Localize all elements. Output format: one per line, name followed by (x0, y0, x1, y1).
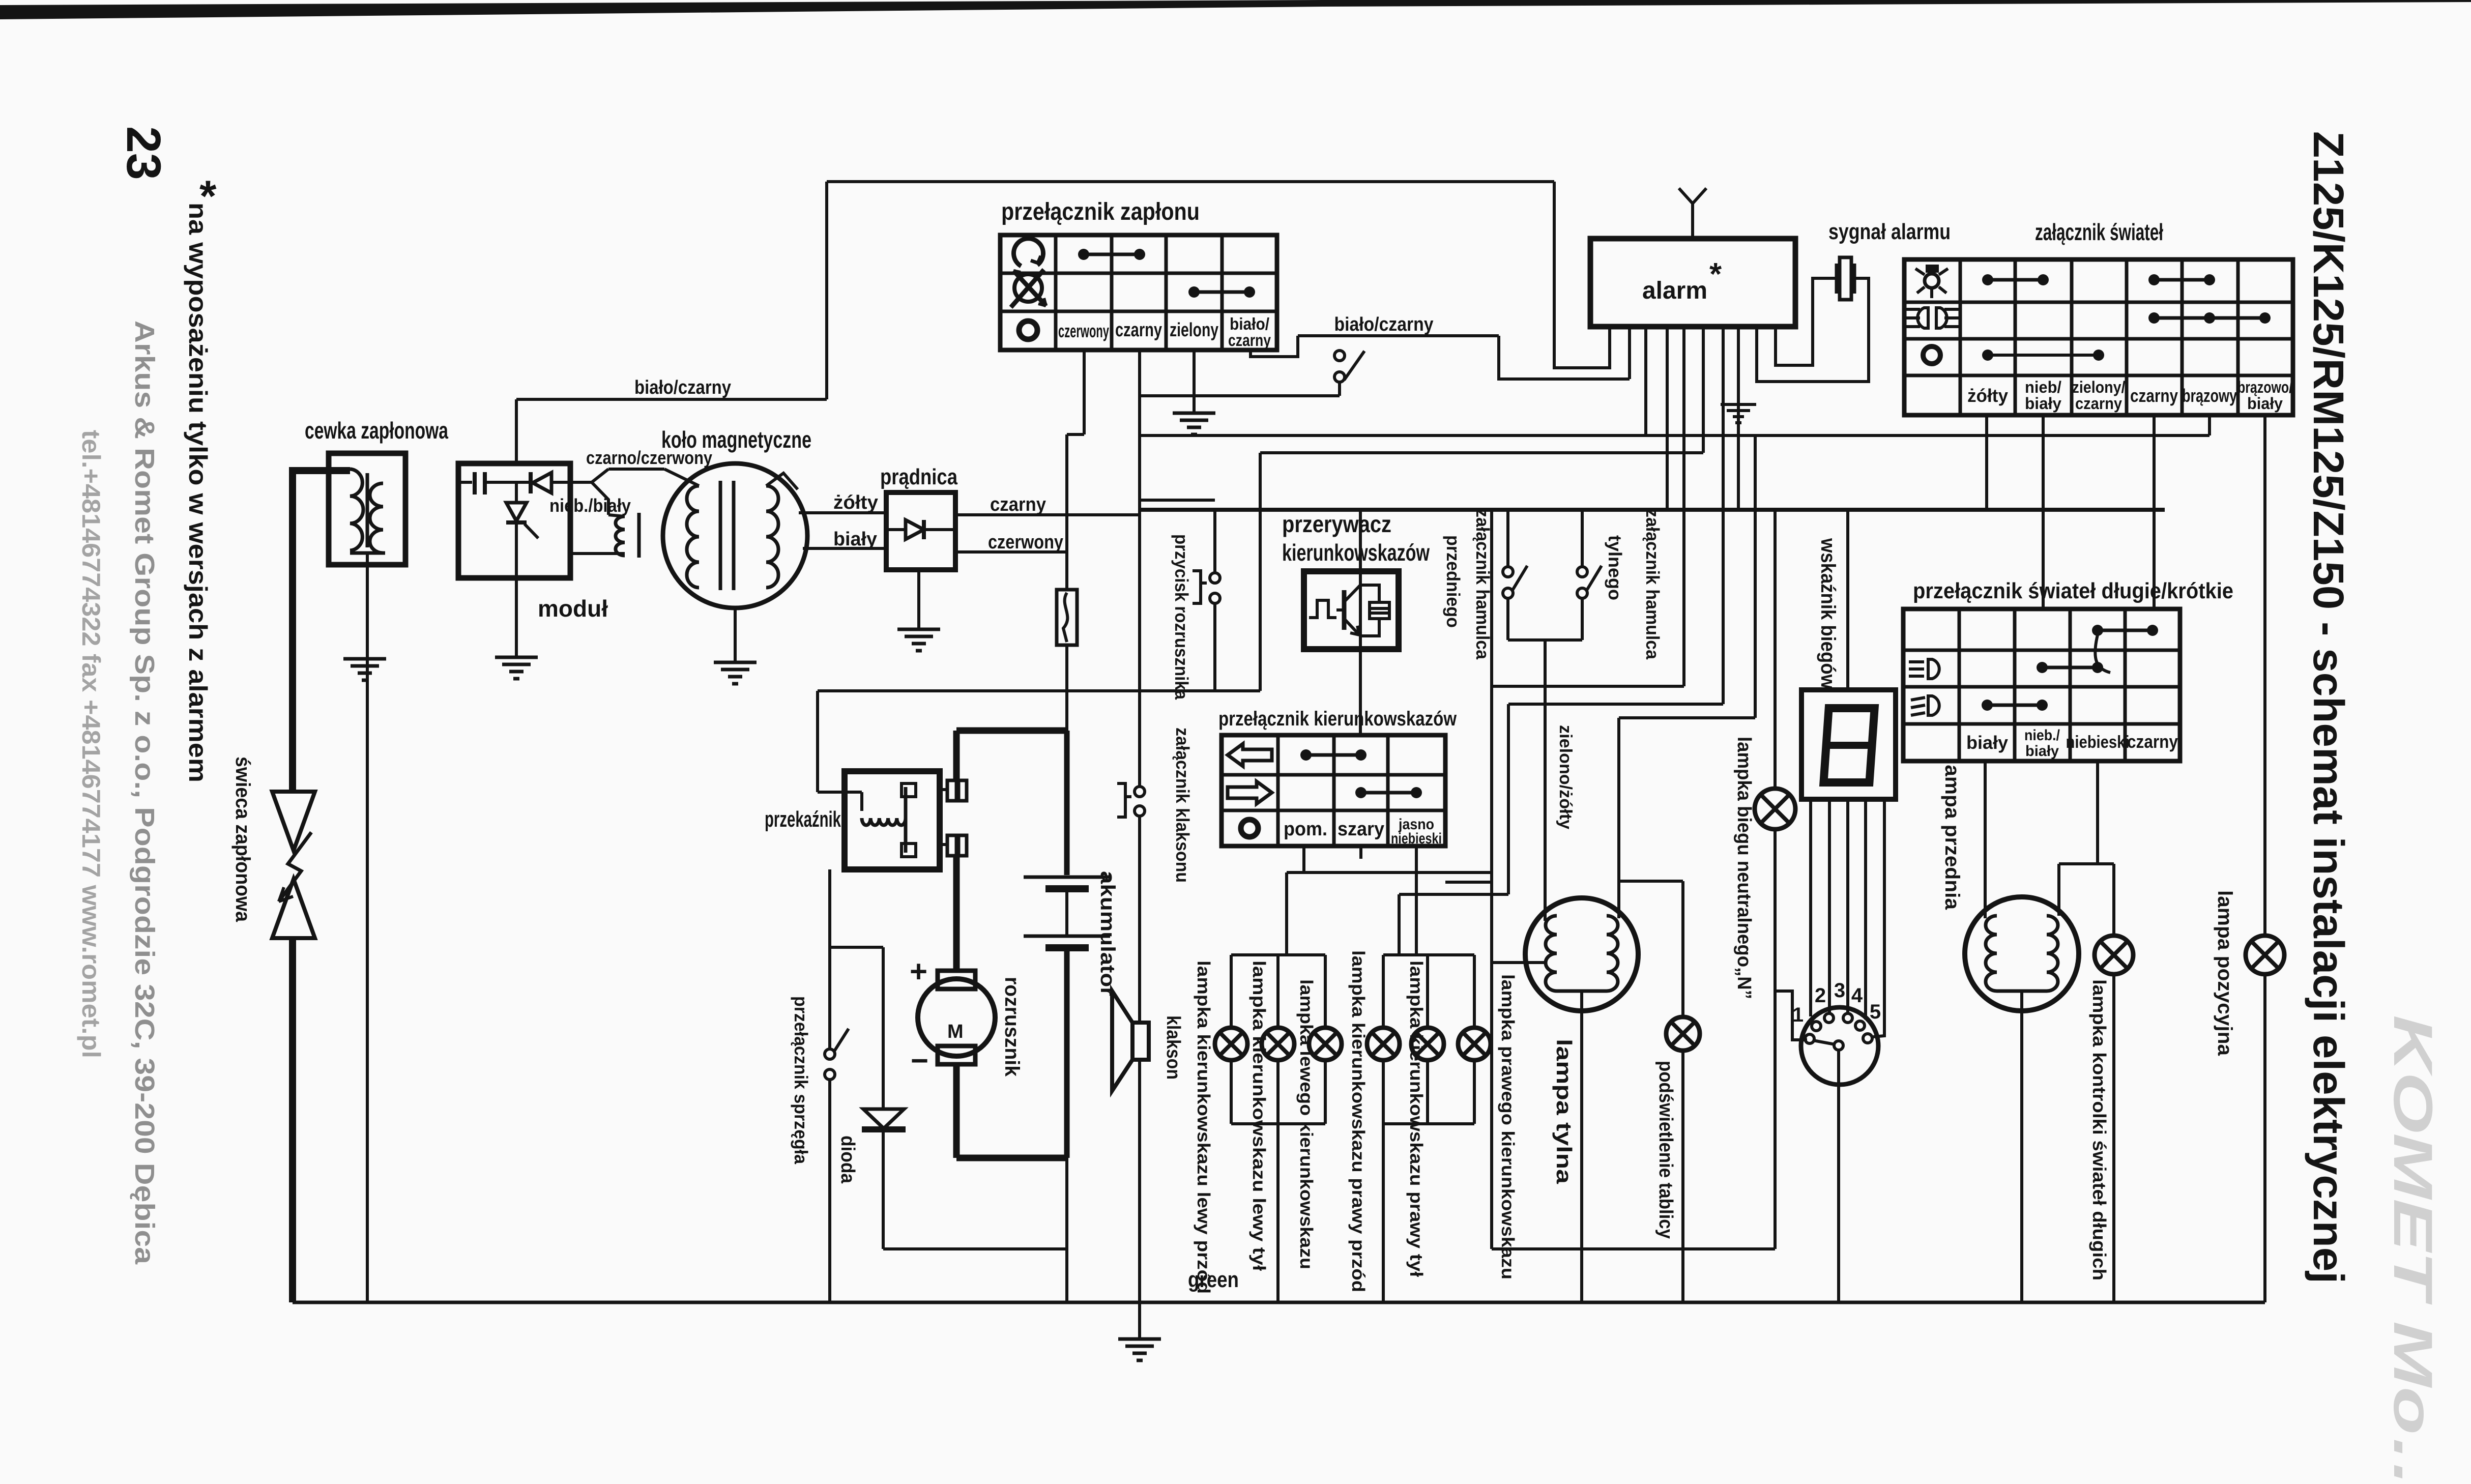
wire up corner to top run (825, 182, 828, 399)
gear connector circle (1801, 1007, 1878, 1085)
wire display feed (1846, 510, 1849, 690)
beam contacts row2 (2037, 662, 2048, 673)
wire diode bottom (882, 1130, 885, 1249)
svg-text:1: 1 (1792, 1004, 1804, 1026)
symbol high beam (1903, 661, 1917, 662)
tail lamp left winding (1546, 916, 1557, 991)
wire button top (1213, 510, 1216, 573)
svg-text:*: * (1709, 257, 1722, 292)
fuse bezpiecznik (1057, 590, 1077, 645)
svg-text:lampka kierunkowskazu prawy pr: lampka kierunkowskazu prawy przód (1348, 950, 1368, 1292)
light switch table grid (1904, 259, 2293, 415)
svg-text:żółty: żółty (1967, 385, 2008, 406)
magneto core (719, 481, 722, 590)
wire zolty column to bus (1985, 415, 1988, 510)
wire horn button down (1138, 816, 1141, 1025)
svg-text:szary: szary (1338, 819, 1384, 840)
svg-text:alarm: alarm (1642, 277, 1707, 304)
wire split to control lamp (2059, 862, 2114, 865)
svg-text:zielono/żółty: zielono/żółty (1556, 725, 1575, 829)
wire horizontal 1758 group2 (1399, 893, 1508, 896)
wire bialy magneto to rectifier (803, 547, 886, 550)
wire alarm7 to 2965 (1508, 703, 1723, 706)
ground bus bottom (293, 1301, 2265, 1304)
ground under module (495, 656, 538, 659)
headlamp center lead (2020, 991, 2023, 1302)
svg-text:2: 2 (1815, 984, 1826, 1007)
svg-text:rozrusznik: rozrusznik (1001, 977, 1023, 1077)
svg-text:biało/czarny: biało/czarny (634, 377, 731, 398)
ignition coil secondary winding (370, 483, 383, 553)
thick wire relay to motor (953, 856, 960, 973)
symbol headlight both (1917, 308, 1928, 328)
wire tail lamp right winding feed (1617, 718, 1620, 918)
wire horizontal 1715 (1287, 871, 1492, 874)
svg-text:Z125/K125/RM125/Z150 - schemat: Z125/K125/RM125/Z150 - schemat instalacj… (2305, 131, 2352, 1284)
svg-text:czarny: czarny (990, 494, 1046, 515)
ignition coil box (329, 453, 405, 565)
svg-text:biały: biały (1966, 732, 2008, 753)
wire alarm pin1 (1554, 182, 1610, 368)
headlamp right winding (2047, 916, 2058, 991)
wire alarm5 to 2932 (1492, 685, 1684, 688)
svg-text:lampa przednia: lampa przednia (1941, 759, 1963, 910)
symbol circle off (1241, 820, 1258, 837)
stub szary column (1359, 846, 1362, 859)
relay armature (904, 787, 908, 853)
wire group1 feed (1285, 872, 1288, 955)
tail lamp center lead (1580, 991, 1583, 1302)
wire diode branch horizontal (830, 946, 883, 949)
wire bialo/czarny down right of switch (1499, 336, 1630, 379)
starter button przycisk rozrusznika (1210, 573, 1220, 583)
svg-text:przycisk rozrusznika: przycisk rozrusznika (1171, 534, 1192, 700)
wire horizontal 890 to alarm (1260, 451, 1703, 454)
svg-text:lampka kierunkowskazu lewy tył: lampka kierunkowskazu lewy tył (1249, 961, 1269, 1271)
rectifier diode (886, 528, 906, 531)
wire brake switch1 top (1506, 510, 1509, 567)
lamp biegu neutralnego (1755, 789, 1795, 829)
beam switch table grid (1903, 609, 2180, 761)
connector pins (1805, 1034, 1814, 1043)
magneto circle (663, 463, 807, 608)
svg-text:moduł: moduł (538, 595, 608, 622)
lamp rail group1 top (1231, 953, 1325, 956)
alarm buzzer loop right (1757, 278, 1869, 382)
svg-text:czarny: czarny (2075, 394, 2122, 413)
svg-text:tylnego: tylnego (1605, 535, 1625, 600)
svg-text:dioda: dioda (837, 1136, 858, 1184)
bus 856 from czarny column to zalacznik swiatel (1140, 434, 2210, 437)
svg-text:przerywacz: przerywacz (1282, 511, 1391, 537)
display pins down (1809, 799, 1812, 1016)
svg-text:świeca zapłonowa: świeca zapłonowa (231, 756, 254, 922)
svg-text:koło magnetyczne: koło magnetyczne (661, 426, 811, 453)
magneto left winding (687, 486, 699, 588)
svg-text:zielony: zielony (1170, 319, 1218, 341)
wire battery chain to ground bus (1065, 1158, 1068, 1302)
tail lamp right winding (1607, 916, 1618, 991)
ground stub zielony column (1193, 350, 1196, 412)
svg-text:na wyposażeniu tylko w wersjac: na wyposażeniu tylko w wersjach z alarme… (184, 202, 212, 782)
wire alarm pin4 (1666, 327, 1669, 510)
svg-text:−: − (911, 1043, 928, 1078)
wire brake switch2 top (1581, 510, 1584, 567)
brake switch zalacznik hamulca przedniego (1503, 567, 1513, 577)
magneto right winding (766, 486, 778, 588)
flasher pulse symbol (1309, 600, 1336, 618)
horn klakson (1112, 991, 1132, 1091)
svg-text:czarny: czarny (1115, 319, 1162, 341)
gear display box (1801, 690, 1896, 799)
svg-text:5: 5 (1870, 1001, 1881, 1023)
svg-text:biały: biały (833, 529, 877, 550)
svg-text:prądnica: prądnica (880, 464, 957, 489)
module capacitor (458, 481, 472, 484)
wire czerwony column jog (1083, 350, 1086, 434)
thick wire battery top (1064, 731, 1070, 875)
buzzer left lead (1776, 278, 1837, 365)
flasher cap connections (1360, 585, 1379, 602)
module diode (529, 472, 533, 493)
ignition symbol circle (1019, 321, 1037, 339)
wire czarny rectifier to bus (955, 513, 1140, 516)
tail lamp bottom bar (1557, 990, 1607, 993)
svg-text:przełącznik kierunkowskazów: przełącznik kierunkowskazów (1218, 708, 1457, 730)
wire nieb/bialy column down (2042, 415, 2045, 609)
thick wire relay to top bus (953, 731, 960, 780)
wire neutral lamp down (1774, 829, 1777, 1249)
lamp group1 bottoms (1230, 1060, 1233, 1124)
alarm box (1590, 239, 1795, 327)
wire connector center down (1837, 1050, 1840, 1302)
svg-text:KOMET Mo…: KOMET Mo… (2382, 1015, 2444, 1484)
svg-text:lampka lewego kierunkowskazu: lampka lewego kierunkowskazu (1296, 979, 1316, 1269)
ignition contacts row2 (1188, 286, 1200, 298)
lamp group2 wires (1382, 955, 1385, 1028)
symbol lamp bulb (1926, 265, 1939, 273)
wire alarm pin6 (1702, 327, 1705, 453)
wire clutch switch vertical (828, 869, 831, 1049)
lamp kierunkowskaz prawy tyl (1411, 1028, 1444, 1060)
alarm antenna (1691, 203, 1694, 239)
ground under magneto (714, 661, 757, 664)
wire clutch switch bottom (828, 1080, 831, 1302)
wire bialo/czarny column step (1251, 336, 1298, 357)
svg-text:czarny: czarny (1228, 331, 1271, 350)
svg-text:podświetlenie tablicy: podświetlenie tablicy (1655, 1061, 1676, 1239)
battery cell2 (1024, 935, 1110, 938)
ground under zielony column (1173, 412, 1215, 415)
wire jasno niebieski to group2 (1415, 846, 1418, 955)
svg-text:czerwony: czerwony (1058, 321, 1109, 341)
ignition contacts row1 (1078, 249, 1089, 260)
svg-text:niebieski: niebieski (2066, 733, 2130, 752)
svg-text:lampka biegu neutralnego„N”: lampka biegu neutralnego„N” (1733, 737, 1755, 999)
light contacts row1 right (2148, 274, 2160, 285)
svg-text:przekaźnik: przekaźnik (765, 807, 841, 832)
thick HT wire to spark plug (290, 467, 350, 474)
battery link (1065, 892, 1068, 935)
alarm pin2 wire (1628, 327, 1631, 379)
rectifier ground (917, 570, 920, 628)
lamp kierunkowskaz prawy przod (1367, 1028, 1400, 1060)
svg-text:czarny: czarny (2127, 731, 2178, 752)
ignition coil primary winding (350, 469, 363, 550)
svg-text:przełącznik świateł długie/kró: przełącznik świateł długie/krótkie (1913, 578, 2233, 603)
wire relay feed horizontal (818, 689, 1260, 692)
ignition coil bottom bar (350, 551, 385, 555)
svg-text:green: green (1188, 1267, 1239, 1292)
wire czerwony down to fuse and starter feed (1065, 434, 1068, 732)
position lamp lampa pozycyjna (2246, 936, 2284, 974)
symbol left arrow (1228, 744, 1272, 766)
wire switch bottom left run (1140, 394, 1340, 397)
rectifier box pradnica (886, 492, 955, 570)
wire top run to alarm side (827, 180, 1554, 183)
flasher capacitor (1370, 602, 1389, 619)
svg-text:pom.: pom. (1284, 819, 1327, 840)
wire alarm pin5 (1682, 327, 1685, 686)
svg-text:załącznik hamulca: załącznik hamulca (1642, 509, 1663, 660)
svg-text:biały: biały (2247, 394, 2283, 413)
relay terminal top (940, 788, 947, 791)
svg-text:+: + (910, 954, 927, 988)
scan top edge bar (0, 0, 2471, 19)
ignition symbol off cross circle (1014, 274, 1042, 302)
wire display pin5 to connector (1873, 799, 1884, 1037)
wire group2 to ground bus (1382, 1124, 1385, 1302)
battery akumulator cell1 (1024, 876, 1110, 879)
svg-text:załącznik klaksonu: załącznik klaksonu (1172, 728, 1193, 883)
spark plug swieca zaplonowa (272, 792, 315, 851)
svg-text:tel.+48146774322 fax +48146774: tel.+48146774322 fax +48146774177 www.ro… (77, 430, 105, 1058)
kill switch on bialo/czarny (1334, 351, 1345, 361)
svg-text:czarny: czarny (2130, 385, 2178, 406)
beam contacts row3 (1982, 700, 1993, 711)
wire control lamp down (2112, 974, 2115, 1302)
module SCR thyristor (515, 482, 518, 502)
relay box przekaznik (845, 771, 940, 869)
svg-text:czerwony: czerwony (988, 532, 1063, 553)
short stub czarny to button column (1140, 499, 1215, 502)
relay coil (862, 818, 906, 825)
thick wire battery bottom (1064, 951, 1070, 1158)
light contacts row2 (2148, 312, 2160, 324)
light contacts row3 (1982, 350, 1993, 361)
main ground under bus (1138, 1302, 1141, 1338)
svg-text:brązowy: brązowy (2182, 385, 2237, 406)
svg-text:brązowo/: brązowo/ (2237, 378, 2292, 396)
ignition symbol run arrow (1013, 239, 1043, 266)
turn switch table grid (1222, 735, 1445, 846)
lamp lewego kierunkowskazu (1309, 1028, 1342, 1060)
thick wire motor minus loop (953, 1064, 960, 1158)
svg-text:biały: biały (2025, 394, 2061, 413)
wire czerwony rectifier (955, 550, 1067, 554)
headlamp bottom bar (1997, 990, 2047, 993)
svg-text:akumulator: akumulator (1096, 871, 1119, 996)
wire nieb/bialy fork down (592, 482, 608, 515)
lamp rail group2 bottom (1383, 1122, 1474, 1125)
wire coil secondary down (366, 553, 369, 1302)
wire bialo/czarny run right (1298, 334, 1499, 337)
thick top bus relay-battery (956, 728, 1067, 734)
thick wire spark plug to ground bus (289, 938, 296, 1302)
headlamp circle lampa przednia (1965, 897, 2079, 1011)
lamp prawego kierunkowskazu (1458, 1028, 1491, 1060)
svg-text:nieb/: nieb/ (2025, 378, 2061, 396)
buzzer sygnalizator (1835, 264, 1839, 294)
ignition coil core (366, 473, 369, 547)
svg-text:lampka kierunkowskazu lewy prz: lampka kierunkowskazu lewy przód (1194, 961, 1213, 1294)
gear display seven segment 8 (1823, 708, 1874, 782)
svg-text:4: 4 (1851, 984, 1863, 1007)
svg-text:klakson: klakson (1162, 1015, 1184, 1080)
svg-text:23: 23 (117, 126, 170, 180)
lamp rail group2 top (1383, 953, 1474, 956)
wire niebieski column down (2096, 761, 2099, 864)
wire through flasher (1359, 510, 1362, 735)
svg-text:lampa tylna: lampa tylna (1552, 1039, 1576, 1184)
svg-text:3: 3 (1834, 979, 1845, 1002)
svg-text:żółty: żółty (833, 492, 878, 513)
wire zolty magneto to rectifier (799, 511, 886, 514)
flasher box przerywacz kierunkowskazow (1304, 571, 1399, 649)
relay terminal bottom (940, 843, 947, 846)
wire brazowy column (2208, 415, 2211, 435)
wire pickup coil bottom to module (570, 552, 625, 555)
alarm ground pin (1737, 327, 1740, 510)
svg-text:lampka prawego kierunkowskazu: lampka prawego kierunkowskazu (1498, 974, 1518, 1279)
wire brazowo/bialy column down to position lamp (2263, 415, 2266, 936)
wire podswietlenie to bus (1681, 1051, 1684, 1302)
wire position lamp down (2263, 974, 2266, 1302)
svg-text:niebieski: niebieski (1391, 830, 1442, 847)
svg-text:załącznik hamulca: załącznik hamulca (1472, 509, 1493, 660)
wire rail to tail lamp (1544, 640, 1547, 921)
wire czarno/czerwony to magneto (608, 468, 664, 471)
wire czarny column bus down (1138, 350, 1141, 787)
lamp1 wires (1230, 955, 1233, 1028)
wire diode vertical top (882, 947, 885, 1109)
wire button bottom (1213, 603, 1216, 691)
svg-text:M: M (947, 1021, 964, 1042)
wire module right fork (570, 481, 592, 484)
lamp podswietlenie tablicy (1666, 1017, 1700, 1051)
svg-text:biało/czarny: biało/czarny (1334, 314, 1434, 335)
wire 1411 from brazowy (1619, 716, 1755, 719)
light contacts row1 left (1982, 274, 1993, 285)
wire vertical 2932 (1490, 510, 1493, 1249)
svg-text:cewka zapłonowa: cewka zapłonowa (305, 417, 448, 444)
wire 2932 to tail light feed (1492, 961, 1545, 964)
wire pom column down (1302, 846, 1305, 872)
wire table right to 2932 (1445, 881, 1492, 884)
wire relay feed corner (816, 691, 819, 792)
module box modul (458, 463, 570, 578)
clutch switch przelacznik sprzegla (825, 1049, 835, 1059)
svg-text:Arkus & Romet Group Sp. z o.o.: Arkus & Romet Group Sp. z o.o., Podgrodz… (129, 321, 160, 1265)
wire podswietlenie branch (1619, 880, 1683, 883)
magneto ground lead (734, 608, 737, 661)
svg-text:wskaźnik biegów: wskaźnik biegów (1817, 538, 1839, 689)
wire bialy column to headlamp (1984, 761, 1987, 918)
svg-text:załącznik świateł: załącznik świateł (2035, 219, 2163, 245)
svg-text:kierunkowskazów: kierunkowskazów (1282, 539, 1430, 566)
brake switch zalacznik hamulca tylnego (1577, 567, 1587, 577)
wire horn to ground bus (1138, 1060, 1141, 1302)
wire neutral branch to connector pin1 (1775, 991, 1807, 1040)
svg-text:lampka kontrolki świateł długi: lampka kontrolki świateł długich (2089, 979, 2110, 1281)
svg-text:zielony/: zielony/ (2072, 378, 2126, 396)
wire czarny column down (2153, 415, 2156, 609)
ground on alarm pin (1721, 403, 1756, 406)
flasher transistor (1342, 590, 1347, 630)
wire vertical 2477 (1259, 453, 1262, 691)
svg-text:przedniego: przedniego (1443, 535, 1464, 628)
wire module top to bialo/czarny line (515, 399, 518, 463)
svg-text:lampa pozycyjna: lampa pozycyjna (2214, 890, 2236, 1056)
bus horizontal main (1140, 508, 2165, 512)
svg-text:nieb./: nieb./ (2024, 727, 2060, 744)
lamp rail group1 bottom (1231, 1122, 1325, 1125)
wire bialo/czarny horizontal (516, 398, 827, 401)
diode dioda (863, 1109, 904, 1128)
ground under ignition coil (343, 657, 386, 661)
turn contacts row2 (1355, 787, 1367, 798)
svg-text:przełącznik sprzęgła: przełącznik sprzęgła (791, 996, 811, 1165)
symbol right arrow (1228, 781, 1272, 804)
brake switch bottom rail (1508, 638, 1582, 642)
lamp kierunkowskaz lewy przod (1215, 1028, 1247, 1060)
wire alarm pin3 (1644, 327, 1647, 435)
wire group1 to ground bus (1276, 1124, 1280, 1302)
ignition switch table grid (1000, 235, 1277, 350)
starter motor rozrusznik (918, 979, 995, 1056)
svg-text:biały: biały (2025, 743, 2059, 760)
svg-text:przełącznik zapłonu: przełącznik zapłonu (1001, 198, 1200, 225)
beam control lamp lampka kontrolki (2095, 936, 2133, 974)
lamp kierunkowskaz lewy tyl (1262, 1028, 1294, 1060)
symbol circle off light (1923, 346, 1940, 364)
horn button zalacznik klaksonu (1135, 787, 1145, 797)
tail lamp circle lampa tylna (1525, 898, 1638, 1011)
wire horizontal 2455 (1492, 1247, 1775, 1250)
beam contacts row1 (2092, 625, 2103, 636)
wire alarm pin7 (1722, 327, 1725, 704)
svg-text:nieb./biały: nieb./biały (549, 495, 631, 516)
wire neutral lamp top (1774, 510, 1777, 789)
lamp group2 bottoms (1382, 1060, 1385, 1124)
svg-text:lampka kierunkowskazu prawy ty: lampka kierunkowskazu prawy tył (1406, 961, 1426, 1277)
symbol low beam (1928, 696, 1939, 715)
pickup coil beside magneto (616, 516, 625, 556)
turn contacts row1 (1300, 749, 1312, 761)
headlamp left winding (1986, 916, 1997, 991)
svg-text:sygnał alarmu: sygnał alarmu (1828, 219, 1951, 244)
